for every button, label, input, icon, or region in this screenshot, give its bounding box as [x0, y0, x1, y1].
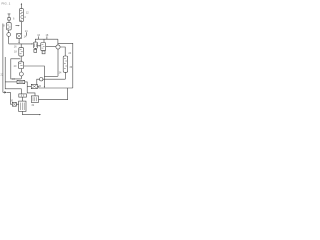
- M2 drain stub: [43, 50, 45, 52]
- left bus x5.2: [5, 57, 21, 94]
- svg-text:24: 24: [12, 78, 15, 81]
- svg-text:36: 36: [69, 66, 72, 69]
- wire VB3 right long line to elbow: [37, 87, 72, 89]
- svg-text:34: 34: [59, 72, 62, 75]
- svg-text:8: 8: [3, 24, 5, 27]
- svg-text:16: 16: [14, 46, 17, 49]
- column C1 (distillation column, top): [20, 9, 24, 22]
- wire M2 to pump P3: [46, 45, 56, 47]
- wire y66 line to right elbow: [24, 66, 45, 87]
- svg-text:FIG. 1: FIG. 1: [2, 2, 11, 6]
- arrow into M1: [32, 43, 34, 44]
- wire right top line y43.3 with elbow down: [58, 43, 73, 88]
- svg-text:4: 4: [24, 16, 26, 19]
- wire P1 down to main line: [8, 36, 10, 44]
- vessel L3: [18, 62, 23, 69]
- wire top distribution line y39.2: [35, 38, 58, 40]
- wire drop to M2 top: [43, 39, 45, 42]
- svg-text:18: 18: [14, 50, 17, 53]
- wire tick: [25, 32, 27, 36]
- valve VB3 (bottom middle): [31, 84, 37, 88]
- wire HX1 out right: [25, 82, 35, 96]
- wire FB down to B1: [21, 97, 23, 101]
- flat box FB: [19, 94, 27, 97]
- wire y76.3 horizontal: [44, 75, 58, 77]
- wire L1 neck: [8, 20, 10, 23]
- vessel B1 (bottom): [19, 101, 26, 111]
- wire L3 to P2: [20, 69, 22, 73]
- M1 drain stub: [34, 48, 36, 49]
- svg-text:12: 12: [26, 11, 29, 14]
- svg-text:32: 32: [31, 104, 34, 107]
- vessel M1 (middle): [34, 42, 38, 48]
- vessel L1 (small feed vessel, upper left): [7, 23, 12, 30]
- wire B1 out bottom arrow: [22, 111, 40, 114]
- wire VB3 left stub: [27, 86, 31, 88]
- valve V2: [12, 102, 16, 106]
- feed arrow to V2: [3, 91, 4, 93]
- wire V2 to B1: [16, 103, 18, 105]
- wire column bottoms line: [20, 22, 22, 34]
- svg-text:20: 20: [14, 65, 17, 68]
- wire L1 to P1: [8, 30, 10, 33]
- wire y79.2 horizontal through P4: [37, 79, 65, 84]
- valve V1 (below column): [17, 34, 22, 39]
- wire into HX1 from bus: [5, 81, 17, 83]
- wire L1 stem: [8, 14, 11, 18]
- vessel M2 (middle): [41, 43, 46, 51]
- wire main horizontal line y44: [9, 43, 33, 45]
- vessel L2 (left train): [19, 48, 24, 57]
- wire top line down into P3: [57, 39, 59, 45]
- wire B2 out right with elbow up: [39, 88, 68, 100]
- wire P2 down: [20, 76, 22, 79]
- wire main line down to L2: [20, 44, 22, 48]
- vessel L1 cap: [8, 18, 11, 21]
- wire L2 to L3 with arrow: [20, 56, 22, 61]
- pump P4: [40, 78, 43, 81]
- vessel R1 (tall narrow, right side): [63, 56, 67, 72]
- pump P3: [56, 45, 60, 49]
- column overhead stem: [20, 4, 22, 8]
- left bus x2.9: [2, 24, 4, 93]
- wire recycle y79 left: [11, 59, 21, 79]
- box B2 (bottom middle vessel): [31, 96, 38, 103]
- wire M1 to M2 with arrow: [37, 45, 40, 47]
- heat exchanger HX1: [17, 80, 25, 83]
- svg-text:6: 6: [13, 18, 15, 21]
- svg-text:24: 24: [68, 52, 71, 55]
- wire V1 down arrow: [18, 39, 20, 44]
- wire P3 right, down x65.2: [60, 47, 65, 56]
- svg-text:14: 14: [24, 35, 27, 38]
- wire P3 bottom down: [57, 49, 59, 76]
- pump P1 (below L1): [7, 33, 11, 37]
- feed tick arrow: [16, 25, 19, 27]
- svg-text:22: 22: [1, 73, 4, 76]
- pump P2: [19, 72, 23, 76]
- wire drop to M1 top: [35, 39, 37, 42]
